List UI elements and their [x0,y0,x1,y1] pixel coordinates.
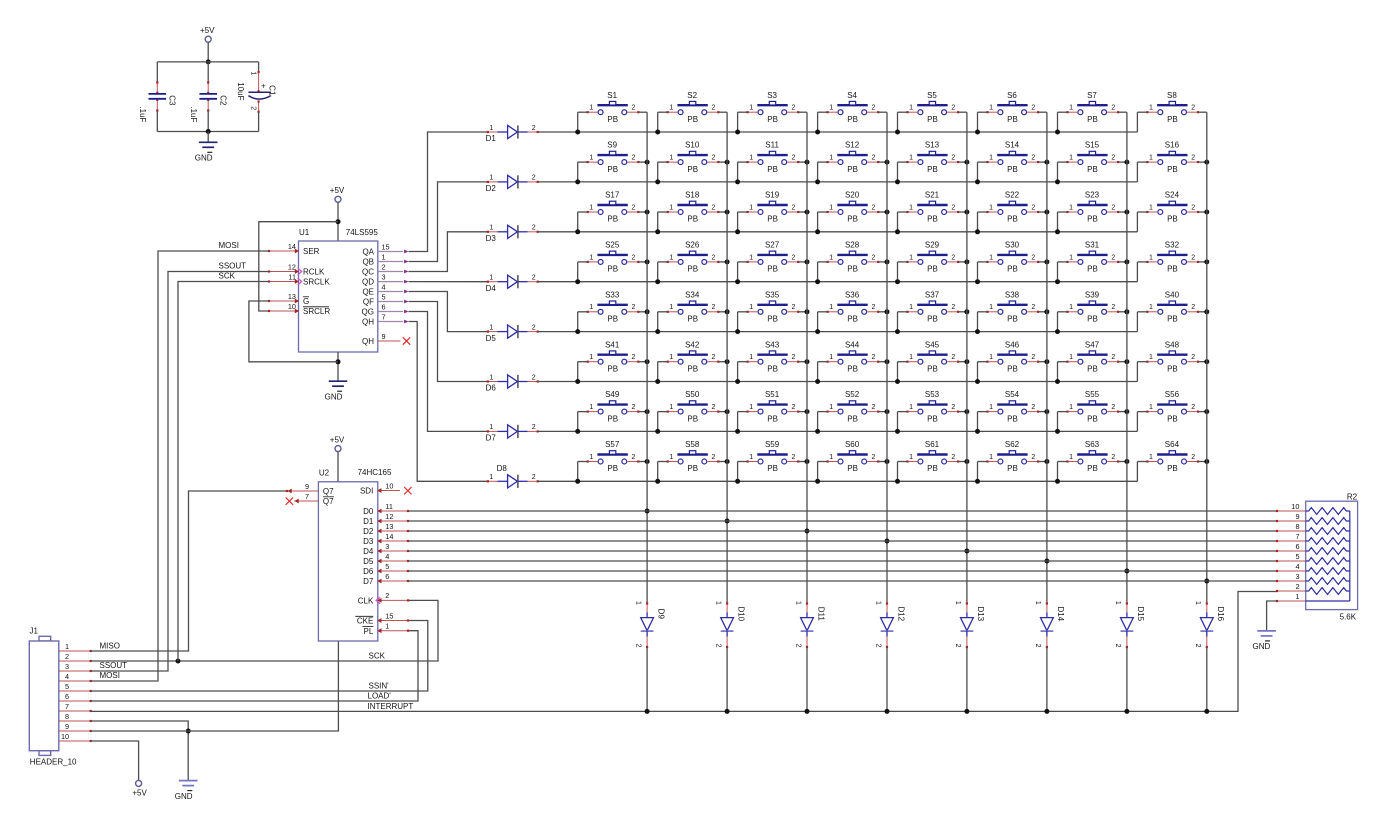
wire S14 pin1 stub [977,162,979,182]
wire net SSOUT: J1-3 to U1 RCLK [91,272,269,672]
wire column 3 below D11 [806,647,808,711]
wire S14 pin2 to column 6 [1038,161,1047,163]
svg-text:QE: QE [362,287,374,296]
junction S57 pin2 / column 1 [645,459,650,464]
svg-text:2: 2 [1191,354,1195,361]
svg-text:PB: PB [1167,464,1178,473]
J1 pin 7 lead [59,710,91,712]
wire net MOSI: J1-4 to U1 SER [91,251,269,681]
junction column 8 / D7 bus [1204,579,1209,584]
svg-text:S32: S32 [1165,241,1180,250]
svg-text:2: 2 [951,254,955,261]
pushbutton S27 [747,241,800,274]
wire S52 pin1 stub [817,412,819,432]
svg-text:PB: PB [607,115,618,124]
wire row 2 (diode D2 to switches) [538,181,1138,183]
power symbol +5V (cap cluster) [205,36,211,42]
pushbutton S54 [986,390,1039,423]
svg-text:3: 3 [382,272,386,281]
svg-text:2: 2 [382,262,386,271]
junction S49 pin1 / row 7 [575,429,580,434]
junction S9 pin1 / row 2 [575,179,580,184]
svg-text:G: G [303,297,309,306]
pushbutton S57 [587,440,640,473]
wire S6 pin1 stub [977,112,979,132]
svg-text:1: 1 [669,404,673,411]
svg-text:D1: D1 [363,517,374,526]
U1 pin 9 (QH) lead [378,340,401,342]
ground (cap cluster) [199,142,218,147]
wire S1 pin2 to column 1 [638,111,647,113]
svg-text:1: 1 [874,601,881,605]
R2 pin 4 lead [1277,570,1306,572]
svg-text:PB: PB [1007,315,1018,324]
ground (R2) [1257,631,1276,636]
R2 pin 1 lead [1277,600,1306,602]
junction S15 pin2 / column 7 [1124,160,1129,165]
junction S10 pin1 / row 2 [655,179,660,184]
wire S15 pin2 to column 7 [1118,161,1127,163]
U1 pin 5 (QF) lead [378,300,409,304]
svg-text:1: 1 [749,254,753,261]
U2 pin 15 (CKE) lead [377,618,409,623]
wire S49 pin1 lead-in [578,411,588,413]
diode D7 [486,424,539,442]
junction +5V / SRCLR [336,219,341,224]
svg-text:S37: S37 [925,290,940,299]
svg-text:PB: PB [927,165,938,174]
U1 pin 12 (RCLK) lead [268,268,302,274]
svg-text:S24: S24 [1165,191,1180,200]
diode D11 [794,601,825,648]
wire S49 pin1 stub [577,412,579,432]
wire S39 pin1 stub [1057,312,1059,332]
wire U1 QD to diode D4 [409,281,488,283]
wire S50 pin1 stub [657,412,659,432]
svg-text:4: 4 [382,282,386,291]
svg-text:S41: S41 [605,340,620,349]
svg-text:QD: QD [362,277,374,286]
R2 resistor element row 1 [1306,508,1350,515]
svg-text:S60: S60 [845,440,860,449]
svg-text:2: 2 [1031,354,1035,361]
junction S14 pin2 / column 6 [1044,160,1049,165]
svg-text:2: 2 [532,175,536,182]
wire S30 pin1 stub [977,262,979,282]
pushbutton S14 [986,141,1039,174]
wire S9 pin2 to column 1 [638,161,647,163]
wire column 5 vertical [966,112,968,603]
svg-text:1: 1 [749,304,753,311]
wire S56 pin1 stub [1136,412,1138,432]
svg-text:11: 11 [288,272,296,281]
junction S55 pin1 / row 7 [1055,429,1060,434]
wire S27 pin1 stub [737,262,739,282]
wire S10 pin1 stub [657,162,659,182]
U2 pin 5 (D6) lead [377,569,409,574]
wire +5V to rail [207,42,209,62]
svg-text:RCLK: RCLK [303,268,325,277]
svg-text:S21: S21 [925,191,940,200]
junction S27 pin2 / column 3 [805,259,810,264]
svg-text:1: 1 [989,155,993,162]
U1 pin 3 (QD) lead [378,280,409,284]
wire S11 pin2 to column 3 [798,161,807,163]
wire column 6 below D14 [1046,647,1048,711]
R2 pin 8 lead [1277,530,1306,532]
wire S63 pin1 lead-in [1058,461,1068,463]
junction S29 pin1 / row 4 [895,279,900,284]
svg-text:1: 1 [829,254,833,261]
wire S30 pin2 to column 6 [1038,261,1047,263]
diode D15 [1114,601,1145,648]
wire S54 pin1 lead-in [978,411,988,413]
svg-text:PB: PB [927,265,938,274]
svg-text:1: 1 [909,105,913,112]
wire S40 pin1 stub [1136,312,1138,332]
svg-text:1: 1 [1194,601,1201,605]
svg-text:1: 1 [829,454,833,461]
wire S16 pin1 stub [1136,162,1138,182]
svg-text:PB: PB [1087,115,1098,124]
J1 pin 1 lead [59,650,91,652]
svg-text:S9: S9 [607,141,617,150]
svg-text:S19: S19 [765,191,780,200]
wire S23 pin2 to column 7 [1118,211,1127,213]
wire S42 pin2 to column 2 [718,361,727,363]
svg-text:PB: PB [767,215,778,224]
svg-text:1: 1 [909,204,913,211]
svg-text:S7: S7 [1087,91,1097,100]
pushbutton S63 [1066,440,1119,473]
wire C1 pin 2 to rail [258,112,260,132]
svg-text:2: 2 [712,155,716,162]
junction S21 pin2 / column 5 [964,210,969,215]
pushbutton S30 [986,241,1039,274]
svg-text:10: 10 [385,481,393,490]
diode D2 [486,175,539,193]
wire S36 pin2 to column 4 [878,311,887,313]
pushbutton S42 [667,340,720,373]
wire net D2: U2 to R2 pin 8 [408,530,1277,532]
pushbutton S61 [906,440,959,473]
svg-text:9: 9 [1295,512,1299,521]
svg-text:9: 9 [382,332,386,341]
svg-text:2: 2 [1111,354,1115,361]
svg-text:D2: D2 [363,527,374,536]
svg-text:4: 4 [385,552,389,561]
svg-text:7: 7 [305,492,309,501]
junction S13 pin1 / row 2 [895,179,900,184]
junction S31 pin1 / row 4 [1055,279,1060,284]
svg-text:1: 1 [1069,204,1073,211]
wire column 8 vertical [1206,112,1208,603]
svg-text:D7: D7 [486,434,497,443]
wire S20 pin2 to column 4 [878,211,887,213]
svg-text:6: 6 [65,692,69,701]
svg-text:1: 1 [1149,304,1153,311]
U1 pin 6 (QG) lead [378,310,409,314]
junction S42 pin1 / row 6 [655,379,660,384]
svg-text:QH: QH [362,337,374,346]
svg-text:S54: S54 [1005,390,1020,399]
svg-text:10: 10 [61,732,69,741]
junction S11 pin2 / column 3 [805,160,810,165]
svg-text:S46: S46 [1005,340,1020,349]
svg-text:2: 2 [951,105,955,112]
junction S21 pin1 / row 3 [895,229,900,234]
junction S56 pin2 / column 8 [1204,409,1209,414]
wire +5V to U1 SRCLR [259,222,338,311]
svg-text:6: 6 [382,302,386,311]
junction S49 pin2 / column 1 [645,409,650,414]
pushbutton S29 [906,241,959,274]
pushbutton S23 [1066,191,1119,224]
pushbutton S21 [906,191,959,224]
J1 pin 8 lead [59,720,91,722]
wire S15 pin1 lead-in [1058,161,1068,163]
svg-text:2: 2 [791,454,795,461]
svg-text:GND: GND [175,792,193,801]
svg-text:D1: D1 [486,134,497,143]
svg-text:1: 1 [489,374,493,381]
R2 pin 10 lead [1277,510,1306,512]
svg-text:1: 1 [1149,204,1153,211]
svg-text:3: 3 [65,662,69,671]
junction S52 pin1 / row 7 [815,429,820,434]
junction S5 pin1 / row 1 [895,130,900,135]
svg-text:1: 1 [1069,105,1073,112]
junction S53 pin1 / row 7 [895,429,900,434]
wire S26 pin1 lead-in [658,261,668,263]
capacitor C2 (.1uF) [189,81,228,122]
junction S63 pin1 / row 8 [1055,479,1060,484]
wire S51 pin1 stub [737,412,739,432]
svg-text:7: 7 [1295,532,1299,541]
wire S21 pin1 stub [897,212,899,232]
svg-text:PB: PB [847,215,858,224]
svg-text:2: 2 [1191,155,1195,162]
svg-text:PB: PB [847,315,858,324]
svg-text:D0: D0 [363,507,374,516]
svg-text:PB: PB [767,464,778,473]
U1 pin 14 (SER) lead [268,249,299,254]
wire S45 pin2 to column 5 [958,361,967,363]
pushbutton S13 [906,141,959,174]
svg-text:D8: D8 [497,464,508,473]
svg-text:2: 2 [1111,155,1115,162]
svg-text:1: 1 [909,404,913,411]
svg-text:2: 2 [1111,304,1115,311]
junction S63 pin2 / column 7 [1124,459,1129,464]
svg-text:2: 2 [1031,404,1035,411]
svg-text:PB: PB [1007,165,1018,174]
wire +5V to U2 VCC [337,452,339,482]
wire S13 pin1 lead-in [898,161,908,163]
junction S2 pin1 / row 1 [655,130,660,135]
wire S11 pin1 lead-in [738,161,748,163]
svg-text:D3: D3 [363,537,374,546]
wire S25 pin1 lead-in [578,261,588,263]
wire S50 pin2 to column 2 [718,411,727,413]
IC U2 74HC165 shift register body [318,482,377,641]
wire S40 pin2 to column 8 [1198,311,1207,313]
svg-text:2: 2 [712,404,716,411]
svg-text:74LS595: 74LS595 [346,228,379,237]
wire S57 pin1 stub [577,462,579,482]
svg-text:1: 1 [909,155,913,162]
U2 pin 12 (D1) lead [377,519,409,524]
wire S52 pin1 lead-in [818,411,828,413]
U1 pin 2 (QC) lead [378,270,409,274]
wire S29 pin2 to column 5 [958,261,967,263]
svg-text:C3: C3 [168,95,177,106]
svg-text:+5V: +5V [330,186,345,195]
svg-text:S5: S5 [927,91,937,100]
junction column 5 / INTERRUPT bus [964,709,969,714]
pushbutton S24 [1146,191,1199,224]
no-connect X on U1 pin 9 QH' [403,337,410,344]
wire S34 pin1 lead-in [658,311,668,313]
svg-text:2: 2 [632,254,636,261]
pushbutton S16 [1146,141,1199,174]
svg-text:D12: D12 [896,606,905,621]
U2 pin 13 (D2) lead [377,529,409,534]
wire S39 pin1 lead-in [1058,311,1068,313]
wire S4 pin1 lead-in [818,111,828,113]
svg-text:1: 1 [909,354,913,361]
svg-text:2: 2 [1111,204,1115,211]
svg-text:D9: D9 [656,609,665,620]
R2 pin 1 common row [1306,600,1350,602]
wire S25 pin1 stub [577,262,579,282]
wire S24 pin1 stub [1136,212,1138,232]
pushbutton S18 [667,191,720,224]
svg-text:1: 1 [1149,404,1153,411]
wire S5 pin2 to column 5 [958,111,967,113]
svg-text:2: 2 [791,404,795,411]
junction S4 pin1 / row 1 [815,130,820,135]
svg-text:9: 9 [65,722,69,731]
junction S13 pin2 / column 5 [964,160,969,165]
svg-text:5: 5 [382,292,386,301]
svg-text:2: 2 [712,254,716,261]
svg-text:MOSI: MOSI [219,241,239,250]
svg-text:1: 1 [829,105,833,112]
junction S55 pin2 / column 7 [1124,409,1129,414]
wire S28 pin1 stub [817,262,819,282]
wire S33 pin1 lead-in [578,311,588,313]
junction S10 pin2 / column 2 [725,160,730,165]
svg-text:2: 2 [871,254,875,261]
diode D8 [487,464,539,488]
svg-text:1: 1 [1149,155,1153,162]
pushbutton S6 [986,91,1039,124]
svg-text:S1: S1 [607,91,617,100]
R2 pin 5 lead [1277,560,1306,562]
junction S48 pin2 / column 8 [1204,359,1209,364]
junction column 2 / INTERRUPT bus [725,709,730,714]
svg-text:2: 2 [250,106,257,110]
wire S32 pin2 to column 8 [1198,261,1207,263]
svg-text:1: 1 [989,404,993,411]
wire S31 pin1 stub [1057,262,1059,282]
junction column 1 / D0 bus [645,509,650,514]
wire S55 pin1 stub [1057,412,1059,432]
junction S17 pin2 / column 1 [645,210,650,215]
wire net D4: U2 to R2 pin 6 [408,550,1277,552]
wire row 1 (diode D1 to switches) [538,131,1138,133]
junction S57 pin1 / row 8 [575,479,580,484]
wire row 5 (diode D5 to switches) [538,331,1138,333]
wire S40 pin1 lead-in [1137,311,1147,313]
wire column 8 below D16 [1206,647,1208,711]
svg-text:3: 3 [385,542,389,551]
svg-text:15: 15 [385,611,393,620]
svg-text:2: 2 [871,404,875,411]
svg-text:PB: PB [767,265,778,274]
junction S43 pin1 / row 6 [735,379,740,384]
pushbutton S19 [747,191,800,224]
wire bottom rail of capacitor cluster [157,131,258,133]
junction column 6 / INTERRUPT bus [1044,709,1049,714]
wire S8 pin2 to column 8 [1198,111,1207,113]
pushbutton S33 [587,290,640,323]
pushbutton S41 [587,340,640,373]
junction S23 pin1 / row 3 [1055,229,1060,234]
svg-text:PB: PB [607,215,618,224]
svg-text:GND: GND [325,393,343,402]
wire S44 pin2 to column 4 [878,361,887,363]
wire net D0: U2 to R2 pin 10 [408,510,1277,512]
junction S44 pin2 / column 4 [885,359,890,364]
svg-text:PB: PB [847,464,858,473]
U1 pin 4 (QE) lead [378,290,409,294]
wire S64 pin1 stub [1136,462,1138,482]
junction S47 pin1 / row 6 [1055,379,1060,384]
U2 pin 11 (D0) lead [377,509,409,514]
svg-text:PB: PB [687,265,698,274]
svg-text:D5: D5 [363,557,374,566]
wire S28 pin1 lead-in [818,261,828,263]
svg-text:1: 1 [589,404,593,411]
svg-text:1: 1 [829,304,833,311]
svg-text:MISO: MISO [100,641,120,650]
pushbutton S58 [667,440,720,473]
pushbutton S46 [986,340,1039,373]
svg-text:2: 2 [1114,644,1121,648]
junction column 7 / D6 bus [1124,569,1129,574]
svg-text:S59: S59 [765,440,780,449]
junction S39 pin1 / row 5 [1055,329,1060,334]
wire top rail of capacitor cluster [157,61,258,63]
wire S6 pin1 lead-in [978,111,988,113]
svg-text:5: 5 [65,682,69,691]
pushbutton S10 [667,141,720,174]
wire S31 pin2 to column 7 [1118,261,1127,263]
svg-text:10: 10 [288,302,296,311]
wire S62 pin1 stub [977,462,979,482]
svg-text:2: 2 [951,304,955,311]
wire S2 pin2 to column 2 [718,111,727,113]
svg-text:1: 1 [989,454,993,461]
wire S59 pin1 lead-in [738,461,748,463]
junction S31 pin2 / column 7 [1124,259,1129,264]
svg-text:1: 1 [749,404,753,411]
svg-text:1: 1 [589,254,593,261]
svg-text:S26: S26 [685,241,700,250]
svg-text:S15: S15 [1085,141,1100,150]
